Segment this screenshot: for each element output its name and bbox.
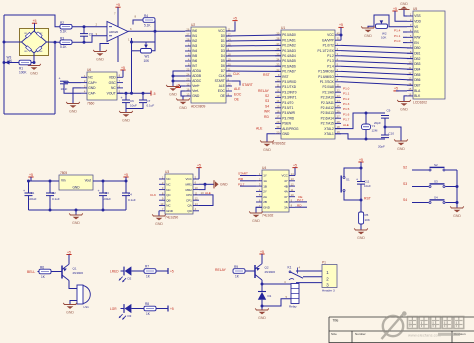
svg-text:1K: 1K bbox=[146, 312, 151, 316]
svg-text:7660: 7660 bbox=[87, 102, 95, 106]
label R1 bbox=[19, 67, 27, 75]
svg-text:22: 22 bbox=[337, 89, 340, 93]
svg-text:32: 32 bbox=[276, 68, 279, 72]
net S3 mcu bbox=[265, 99, 269, 103]
net START u4 bbox=[238, 172, 248, 176]
ground MCU bbox=[260, 140, 274, 151]
svg-text:DB7: DB7 bbox=[414, 83, 420, 87]
svg-text:P1.0: P1.0 bbox=[394, 39, 401, 43]
svg-text:+5: +5 bbox=[67, 250, 71, 254]
svg-text:GND: GND bbox=[122, 118, 130, 122]
svg-text:P1.0: P1.0 bbox=[343, 86, 350, 90]
svg-text:IN3: IN3 bbox=[192, 44, 197, 48]
svg-text:D7: D7 bbox=[221, 69, 225, 73]
wire 7805 out rail bbox=[93, 180, 126, 182]
power +5 vref bbox=[175, 83, 180, 87]
svg-text:RELAY: RELAY bbox=[258, 89, 270, 93]
svg-text:P3.0/RXD: P3.0/RXD bbox=[282, 80, 297, 84]
net RD u4 bbox=[297, 203, 302, 207]
wire bridge loop top bbox=[4, 15, 60, 27]
wire u4 vcc bbox=[294, 168, 296, 176]
svg-text:C6: C6 bbox=[130, 99, 134, 103]
bridge sensor B1 body bbox=[20, 29, 49, 56]
svg-text:5: 5 bbox=[286, 295, 288, 299]
svg-text:+5: +5 bbox=[170, 307, 174, 311]
power +5 ADC bbox=[232, 16, 237, 20]
wire S4 left bbox=[412, 202, 429, 204]
svg-text:12: 12 bbox=[186, 83, 189, 87]
svg-text:P2.1/A9: P2.1/A9 bbox=[322, 90, 334, 94]
svg-text:11: 11 bbox=[195, 191, 198, 195]
svg-text:ALE: ALE bbox=[234, 87, 241, 91]
wire loop bottom bbox=[4, 113, 55, 115]
svg-text:OE: OE bbox=[220, 94, 225, 98]
svg-text:P1.4: P1.4 bbox=[394, 29, 401, 33]
wire keys common bbox=[456, 170, 458, 208]
ground reset bbox=[354, 228, 368, 239]
svg-text:P2.3/A11: P2.3/A11 bbox=[321, 101, 334, 105]
wire 7660 vdd bbox=[122, 70, 124, 77]
svg-text:C10: C10 bbox=[389, 131, 395, 135]
transistor Q1 2N3906 bbox=[62, 264, 83, 280]
svg-text:3B: 3B bbox=[284, 200, 288, 204]
svg-text:MR1: MR1 bbox=[185, 183, 192, 187]
net ALE adc bbox=[234, 87, 241, 91]
svg-text:26: 26 bbox=[337, 109, 340, 113]
power +5 Q1 bbox=[66, 250, 71, 254]
svg-text:ALE: ALE bbox=[256, 126, 263, 130]
wire R8 to power bbox=[156, 308, 168, 310]
wire u4 1y bbox=[240, 175, 256, 177]
op-amp U7 AD620 bbox=[107, 22, 128, 42]
svg-text:C11: C11 bbox=[364, 180, 370, 184]
svg-text:S3: S3 bbox=[403, 182, 407, 186]
svg-text:16: 16 bbox=[276, 110, 279, 114]
wire data bus D5 bbox=[226, 60, 281, 62]
svg-text:Size: Size bbox=[331, 332, 337, 336]
svg-text:+: + bbox=[121, 96, 123, 100]
svg-text:S4: S4 bbox=[265, 104, 269, 108]
svg-text:VCC: VCC bbox=[185, 177, 192, 181]
svg-text:CLK: CLK bbox=[233, 72, 240, 76]
wire data bus D4 bbox=[226, 55, 281, 57]
wire R7 to power bbox=[156, 270, 168, 272]
svg-text:IN1: IN1 bbox=[192, 34, 197, 38]
junction gnd C2 bbox=[49, 209, 52, 212]
svg-text:P1.1: P1.1 bbox=[394, 34, 401, 38]
svg-text:IN7: IN7 bbox=[192, 64, 197, 68]
svg-text:Title: Title bbox=[333, 318, 339, 322]
svg-text:U5: U5 bbox=[413, 7, 417, 11]
svg-text:10: 10 bbox=[408, 60, 411, 64]
svg-text:+5: +5 bbox=[170, 269, 174, 273]
svg-text:www.elecfans.com: www.elecfans.com bbox=[408, 332, 442, 337]
wire Q2 emitter bbox=[261, 254, 263, 264]
title block bbox=[329, 317, 474, 343]
svg-text:5.1K: 5.1K bbox=[60, 45, 67, 49]
resistor R4 bbox=[143, 18, 155, 23]
svg-text:6: 6 bbox=[130, 27, 132, 31]
svg-text:8: 8 bbox=[135, 15, 137, 19]
svg-text:P1.3: P1.3 bbox=[343, 102, 350, 106]
svg-text:ADC0809: ADC0809 bbox=[191, 105, 205, 109]
svg-text:D4: D4 bbox=[221, 54, 225, 58]
svg-text:21: 21 bbox=[337, 83, 340, 87]
net P1.3 mcu right bbox=[343, 102, 350, 106]
svg-text:AD620: AD620 bbox=[109, 30, 119, 34]
potentiometer W1 wiper bbox=[144, 42, 148, 48]
wire 7660 vout rail bbox=[117, 92, 151, 94]
svg-text:D2: D2 bbox=[128, 277, 132, 281]
wire C6 drop bbox=[125, 93, 127, 100]
svg-text:P1.1/T2 EX: P1.1/T2 EX bbox=[317, 49, 334, 53]
svg-text:S4: S4 bbox=[434, 195, 438, 199]
wire psu out drop bbox=[125, 177, 127, 181]
svg-text:GND: GND bbox=[72, 185, 80, 189]
svg-text:P3.2/INT0: P3.2/INT0 bbox=[282, 90, 297, 94]
wire R3 to node bbox=[72, 36, 107, 42]
svg-text:12M: 12M bbox=[372, 128, 378, 132]
svg-text:S3: S3 bbox=[434, 179, 438, 183]
wire lcd rs bbox=[403, 31, 407, 33]
net P2.7 u4 bbox=[238, 182, 245, 186]
wire bridge right out bbox=[47, 41, 61, 43]
pin 8 op-amp bbox=[135, 15, 137, 19]
wire vref+ stub bbox=[181, 86, 186, 88]
wire ADDC bbox=[173, 80, 185, 82]
svg-text:GND: GND bbox=[282, 132, 290, 136]
net BELL bbox=[27, 270, 35, 274]
wire adc gnd drop bbox=[182, 96, 184, 100]
svg-text:14: 14 bbox=[408, 82, 411, 86]
svg-text:12: 12 bbox=[408, 71, 411, 75]
wire bridge top bbox=[34, 23, 36, 31]
svg-text:D3: D3 bbox=[128, 314, 132, 318]
wire R5 bottom bbox=[360, 224, 362, 230]
wire lcd bus line 5 bbox=[341, 71, 413, 74]
svg-text:P1.7/SCK: P1.7/SCK bbox=[320, 80, 335, 84]
wire D3 to R8 bbox=[131, 308, 144, 310]
svg-text:10: 10 bbox=[228, 72, 231, 76]
wire u3 gnd flag wire bbox=[205, 183, 214, 185]
svg-text:R3: R3 bbox=[60, 36, 64, 40]
wire psu in drop bbox=[30, 177, 32, 181]
svg-text:VDD: VDD bbox=[414, 20, 421, 24]
svg-text:R6: R6 bbox=[40, 265, 44, 269]
svg-text:28: 28 bbox=[186, 38, 189, 42]
svg-text:ALE/PROG: ALE/PROG bbox=[282, 127, 299, 131]
net P1.5 mcu right bbox=[343, 107, 350, 111]
ground PSU bbox=[69, 213, 83, 224]
wire lcd en bbox=[403, 42, 407, 44]
svg-text:C7: C7 bbox=[147, 99, 151, 103]
svg-text:+5: +5 bbox=[260, 250, 264, 254]
svg-text:P1.7: P1.7 bbox=[343, 118, 350, 122]
svg-text:22: 22 bbox=[228, 82, 231, 86]
ground LS1 bbox=[63, 303, 77, 314]
wire lcd vss bbox=[404, 10, 407, 17]
resistor R6 bbox=[39, 269, 51, 274]
svg-text:D5: D5 bbox=[221, 59, 225, 63]
svg-text:P1.6: P1.6 bbox=[343, 112, 350, 116]
wire contact 1 bbox=[296, 270, 322, 272]
wire lcd vdd bbox=[395, 11, 407, 21]
svg-text:GND: GND bbox=[72, 221, 80, 225]
IC U5 LCD1602 bbox=[407, 7, 445, 105]
svg-text:EN: EN bbox=[414, 41, 419, 45]
capacitor C11 bbox=[356, 177, 365, 184]
svg-text:VDD: VDD bbox=[109, 76, 117, 80]
wire C1 drop bbox=[28, 181, 30, 193]
wire op-amp pin5 bbox=[117, 37, 119, 62]
IC U1 AT89S52 bbox=[272, 26, 341, 146]
capacitor C4 bbox=[122, 193, 130, 196]
svg-text:33: 33 bbox=[276, 63, 279, 67]
wire Q1 collector bbox=[69, 281, 77, 289]
svg-text:VOUT: VOUT bbox=[107, 91, 116, 95]
svg-text:16: 16 bbox=[408, 92, 411, 96]
svg-text:+5: +5 bbox=[359, 158, 363, 162]
svg-text:37: 37 bbox=[276, 42, 279, 46]
svg-text:S1: S1 bbox=[346, 178, 350, 182]
resistor R3 bbox=[60, 40, 72, 45]
svg-text:ADDC: ADDC bbox=[192, 79, 202, 83]
speaker LS1 bbox=[77, 285, 90, 309]
svg-text:XTAL1: XTAL1 bbox=[324, 132, 334, 136]
capacitor C1 bbox=[23, 189, 33, 196]
wire u4 1b bbox=[240, 185, 256, 187]
net P1.0 lcd bbox=[394, 39, 401, 43]
junction bridge bottom bbox=[33, 61, 36, 64]
svg-text:100uF: 100uF bbox=[103, 197, 112, 201]
wire C4 bottom bbox=[125, 196, 127, 210]
svg-text:38: 38 bbox=[276, 37, 279, 41]
svg-text:13: 13 bbox=[160, 202, 163, 206]
svg-text:4A: 4A bbox=[284, 190, 288, 194]
svg-text:GND: GND bbox=[66, 310, 74, 314]
wire W1 left leg bbox=[132, 50, 141, 52]
label C5 bbox=[61, 80, 70, 91]
svg-text:0.1uF: 0.1uF bbox=[147, 104, 155, 108]
svg-text:DB3: DB3 bbox=[414, 62, 420, 66]
net P2.7 u4b bbox=[297, 198, 304, 202]
svg-text:P1.2: P1.2 bbox=[327, 54, 334, 58]
wire lcd blk bbox=[404, 96, 407, 102]
svg-text:GND: GND bbox=[397, 147, 405, 151]
wire crystal bottom bbox=[365, 130, 367, 139]
svg-text:QB: QB bbox=[166, 198, 170, 202]
net WR u4 bbox=[238, 177, 244, 181]
svg-text:R2: R2 bbox=[60, 21, 64, 25]
resistor R5 bbox=[359, 212, 370, 224]
svg-text:+5: +5 bbox=[394, 87, 398, 91]
wire bridge loop left bbox=[3, 15, 5, 114]
junction C2 top bbox=[49, 180, 52, 183]
svg-text:25: 25 bbox=[186, 68, 189, 72]
power +5 bridge bbox=[32, 19, 37, 23]
resistor R8 bbox=[144, 306, 156, 311]
svg-text:4B: 4B bbox=[284, 184, 288, 188]
svg-text:11: 11 bbox=[277, 84, 280, 88]
label C4 bbox=[128, 192, 136, 202]
junction S4 bbox=[456, 201, 459, 204]
net RD mcu bbox=[264, 115, 269, 119]
svg-text:35: 35 bbox=[276, 52, 279, 56]
wire LS1 gnd bbox=[70, 301, 77, 305]
svg-text:Q1: Q1 bbox=[73, 267, 77, 271]
label W2 bbox=[381, 31, 387, 39]
wire op-amp pin1 stub bbox=[131, 38, 133, 51]
wire C1 bottom bbox=[28, 196, 30, 210]
wire S3 left bbox=[412, 186, 429, 188]
svg-text:GND: GND bbox=[69, 109, 77, 113]
svg-text:GND: GND bbox=[96, 57, 104, 61]
net P1.2 mcu right bbox=[343, 97, 350, 101]
net RST bbox=[364, 196, 371, 200]
svg-text:+5: +5 bbox=[121, 66, 125, 70]
svg-text:RST: RST bbox=[263, 73, 270, 77]
junction relay top bbox=[261, 283, 264, 286]
svg-text:+5: +5 bbox=[393, 7, 397, 11]
svg-text:START: START bbox=[215, 79, 225, 83]
power +5 MCU bbox=[338, 23, 343, 27]
label R8 bbox=[145, 302, 151, 316]
svg-text:GND: GND bbox=[155, 222, 163, 226]
svg-text:GND: GND bbox=[169, 92, 177, 96]
junction C7 bbox=[142, 92, 145, 95]
svg-text:P3.1/TXD: P3.1/TXD bbox=[282, 85, 297, 89]
label R9 bbox=[234, 265, 240, 278]
wire data bus D0 bbox=[226, 35, 281, 36]
net CLK u3 bbox=[150, 193, 157, 197]
ground ADC address bbox=[166, 85, 180, 96]
wire psu gnd drop bbox=[75, 210, 77, 215]
net P1.7 mcu right bbox=[343, 118, 350, 122]
wire mcu vcc ea bbox=[340, 27, 342, 40]
resistor R1 bbox=[19, 60, 31, 65]
svg-text:WR: WR bbox=[264, 110, 270, 114]
capacitor C6 bbox=[121, 96, 131, 102]
net EOC bbox=[234, 92, 242, 96]
wire S1 bottom bbox=[344, 192, 361, 201]
junction reset top bbox=[360, 167, 363, 170]
svg-text:K1: K1 bbox=[288, 265, 292, 269]
svg-text:12: 12 bbox=[276, 89, 279, 93]
ground bridge bbox=[27, 64, 41, 75]
svg-text:10: 10 bbox=[276, 78, 279, 82]
svg-text:VCC: VCC bbox=[281, 174, 288, 178]
svg-text:MR2: MR2 bbox=[185, 188, 192, 192]
power +5 reset bbox=[358, 158, 363, 162]
power +5 7660 bbox=[120, 66, 125, 70]
wire lcd bus line 0 bbox=[341, 45, 413, 48]
wire data bus D7 bbox=[226, 70, 281, 72]
svg-text:10K: 10K bbox=[365, 218, 370, 222]
junction C6 bbox=[125, 92, 128, 95]
svg-text:1A: 1A bbox=[263, 179, 267, 183]
svg-text:23: 23 bbox=[186, 78, 189, 82]
wire lcd bus line 2 bbox=[341, 56, 413, 59]
svg-text:+: + bbox=[23, 189, 25, 193]
capacitor C7 bbox=[139, 100, 147, 103]
wire R1 node bbox=[30, 62, 34, 64]
wire psu gnd rail bbox=[29, 209, 127, 211]
svg-text:16: 16 bbox=[186, 88, 189, 92]
pin 2 op-amp bbox=[96, 23, 98, 27]
svg-text:5.1K: 5.1K bbox=[60, 30, 67, 34]
junction S3 bbox=[456, 185, 459, 188]
net ALE mcu bbox=[256, 126, 263, 130]
svg-text:GND: GND bbox=[263, 148, 271, 152]
svg-text:BLA: BLA bbox=[414, 89, 421, 93]
svg-text:R7: R7 bbox=[145, 265, 149, 269]
net S4 key bbox=[403, 198, 407, 202]
wire bridge left out bbox=[4, 41, 22, 43]
svg-text:GND: GND bbox=[258, 316, 266, 320]
pin 6 op-amp bbox=[130, 27, 132, 31]
svg-text:CP1: CP1 bbox=[186, 198, 192, 202]
svg-text:1B: 1B bbox=[263, 184, 267, 188]
svg-text:START: START bbox=[242, 83, 253, 87]
svg-text:C8: C8 bbox=[89, 32, 93, 36]
ground 7660 bbox=[66, 102, 80, 113]
label C3 bbox=[103, 191, 112, 201]
svg-text:R/W: R/W bbox=[414, 36, 420, 40]
svg-text:26: 26 bbox=[186, 28, 189, 32]
svg-text:12: 12 bbox=[291, 183, 294, 187]
svg-text:GND: GND bbox=[166, 209, 174, 213]
svg-text:BELL: BELL bbox=[27, 270, 35, 274]
svg-text:1K: 1K bbox=[235, 274, 240, 278]
svg-text:P2.5/A13: P2.5/A13 bbox=[321, 111, 334, 115]
wire C2 bottom bbox=[49, 196, 51, 210]
svg-text:28: 28 bbox=[337, 120, 340, 124]
wire S4 right bbox=[446, 202, 458, 204]
label R4 bbox=[144, 14, 151, 27]
svg-text:GND: GND bbox=[192, 94, 200, 98]
svg-text:5.1K: 5.1K bbox=[144, 23, 151, 27]
wire 7660 gnd bbox=[73, 88, 81, 104]
junction vcc ea bbox=[340, 34, 343, 37]
svg-text:P0.6/AD6: P0.6/AD6 bbox=[282, 64, 296, 68]
svg-text:P3.6/WR: P3.6/WR bbox=[282, 111, 295, 115]
wire data bus D1 bbox=[226, 39, 281, 42]
svg-text:2A: 2A bbox=[263, 195, 267, 199]
svg-text:31: 31 bbox=[337, 37, 340, 41]
switch S1 bbox=[341, 176, 350, 193]
capacitor C5 bbox=[59, 77, 69, 84]
svg-text:R4: R4 bbox=[144, 14, 148, 18]
svg-text:DB6: DB6 bbox=[414, 78, 420, 82]
pin 4 contact tick bbox=[298, 266, 301, 274]
wire op-amp vcc bbox=[117, 7, 119, 27]
svg-text:EOC: EOC bbox=[234, 92, 242, 96]
svg-text:10uF: 10uF bbox=[130, 104, 137, 108]
svg-text:11: 11 bbox=[228, 27, 231, 31]
wire lcd rw bbox=[403, 36, 407, 38]
svg-text:10K: 10K bbox=[7, 59, 14, 63]
wire ADDB bbox=[173, 75, 185, 77]
svg-text:2B: 2B bbox=[263, 200, 267, 204]
net START bbox=[242, 83, 253, 87]
wire bell to R6 bbox=[38, 271, 40, 273]
wire C8 top bbox=[83, 27, 85, 34]
svg-text:R9: R9 bbox=[234, 265, 238, 269]
net RELAY mcu bbox=[258, 89, 270, 93]
svg-text:IN5: IN5 bbox=[192, 54, 197, 58]
wire R1 left to W3 bbox=[4, 62, 19, 64]
wire op-amp pin4 gnd bbox=[100, 44, 109, 52]
